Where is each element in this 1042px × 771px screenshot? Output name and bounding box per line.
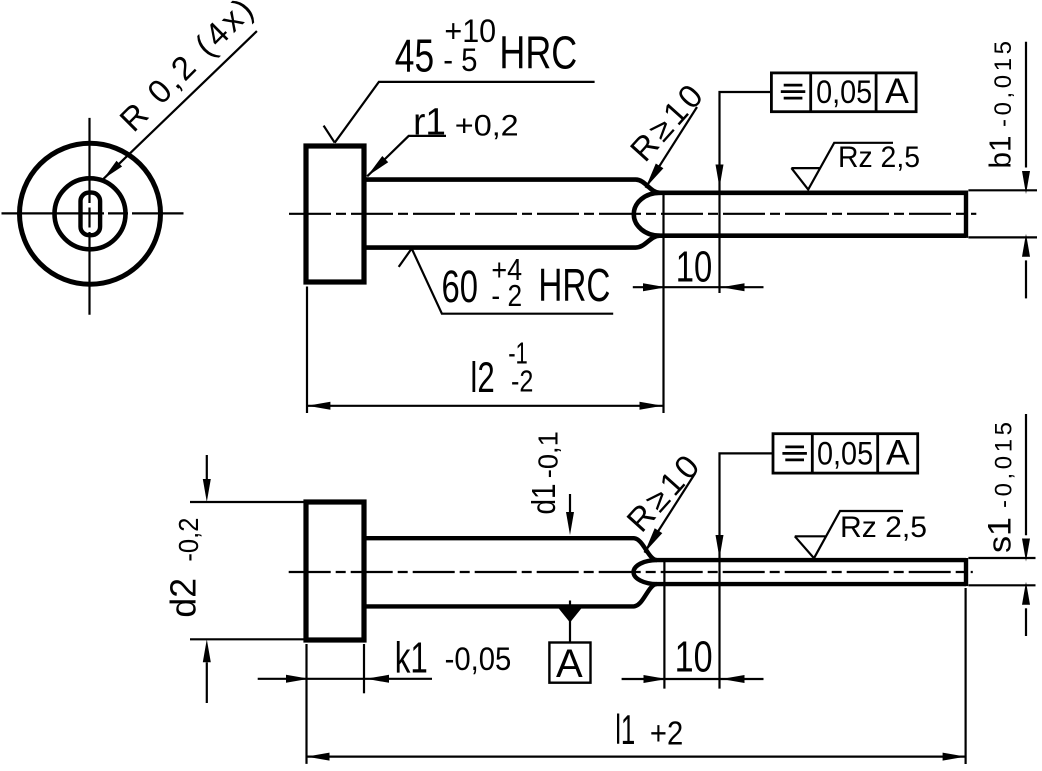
45 HRC leader xyxy=(324,82,595,143)
l2 dimension line xyxy=(307,405,662,407)
10 top extension line (blade start, shared with l2) xyxy=(662,193,664,413)
svg-text:b1: b1 xyxy=(983,136,1018,169)
top view shaft + fillet + blade top edge xyxy=(364,180,966,193)
R>=10 top leader xyxy=(646,107,697,188)
s1 dimension line + arrows xyxy=(1025,414,1027,535)
symmetry symbol top xyxy=(781,85,806,98)
60 HRC leader xyxy=(399,249,614,314)
s1 extension lines xyxy=(968,557,1035,559)
svg-text:- 2: - 2 xyxy=(491,278,522,313)
frame bottom leader xyxy=(720,453,774,688)
top view blade end cap xyxy=(964,191,968,238)
svg-text:- 5: - 5 xyxy=(443,42,477,78)
svg-text:-0,05: -0,05 xyxy=(445,641,512,677)
l1 dimension line xyxy=(307,755,966,757)
leader arrow R 0,2 xyxy=(103,161,122,179)
svg-text:r1: r1 xyxy=(413,102,446,144)
bottom view shaft + fillet + blade top edge xyxy=(364,538,966,560)
frame top leader xyxy=(720,92,772,293)
top view centerline xyxy=(289,213,976,215)
10 bottom extension line xyxy=(663,560,665,689)
svg-text:HRC: HRC xyxy=(499,26,577,78)
d2 extension lines xyxy=(190,501,306,503)
svg-text:10: 10 xyxy=(675,633,713,682)
svg-text:-0,015: -0,015 xyxy=(991,422,1018,508)
svg-text:+0,2: +0,2 xyxy=(455,109,519,142)
d1 leader + arrow xyxy=(569,494,571,513)
svg-text:k1: k1 xyxy=(395,634,428,683)
symmetry symbol bottom xyxy=(782,447,807,460)
bottom view head rectangle xyxy=(306,502,364,640)
r1 leader xyxy=(367,136,446,176)
bottom view transition bullet arc xyxy=(633,560,657,584)
svg-text:d1: d1 xyxy=(525,484,562,515)
top view shaft + fillet + blade bottom edge xyxy=(364,236,966,248)
svg-text:+2: +2 xyxy=(650,714,683,751)
svg-text:HRC: HRC xyxy=(538,259,610,311)
svg-text:s1: s1 xyxy=(982,517,1018,553)
bottom view shaft + fillet + blade bottom edge xyxy=(364,584,966,606)
tolerance frame top xyxy=(771,73,916,112)
svg-text:l1: l1 xyxy=(615,706,635,753)
svg-text:-0,2: -0,2 xyxy=(173,518,204,562)
bottom view centerline xyxy=(289,571,973,573)
svg-text:10: 10 xyxy=(676,243,713,292)
datum A box xyxy=(549,643,590,683)
end view outer circle (head diameter) xyxy=(20,143,161,284)
svg-text:-2: -2 xyxy=(511,364,533,399)
svg-text:0,05: 0,05 xyxy=(816,74,872,110)
svg-text:60: 60 xyxy=(442,261,479,312)
top view transition bullet arc xyxy=(634,193,660,236)
svg-text:l2: l2 xyxy=(470,354,494,402)
svg-text:d2: d2 xyxy=(163,578,204,618)
roughness symbol top xyxy=(791,143,893,190)
10 top dimension xyxy=(633,286,764,288)
l2 extension line left xyxy=(306,287,308,414)
b1 dimension line + arrows xyxy=(1025,42,1027,168)
leader line R 0,2 xyxy=(103,31,257,179)
bottom view blade end cap xyxy=(964,558,968,586)
roughness symbol bottom xyxy=(795,511,903,558)
end view horizontal centerline xyxy=(2,212,184,214)
R>=10 bottom leader xyxy=(645,474,696,553)
datum A triangle + stem xyxy=(558,607,583,623)
svg-text:A: A xyxy=(885,71,909,111)
l1 extension line right xyxy=(964,588,966,764)
k1 extension lines xyxy=(305,644,307,764)
k1 dimension xyxy=(258,678,432,680)
svg-text:-0,1: -0,1 xyxy=(533,431,564,478)
svg-text:-0,015: -0,015 xyxy=(990,41,1017,127)
end view inner circle (shaft diameter) xyxy=(55,178,126,249)
tolerance frame bottom xyxy=(773,434,918,473)
svg-text:Rz 2,5: Rz 2,5 xyxy=(838,141,920,174)
svg-text:45: 45 xyxy=(395,29,434,81)
svg-text:Rz 2,5: Rz 2,5 xyxy=(840,511,927,544)
d2 dimension xyxy=(206,455,208,480)
svg-text:0,05: 0,05 xyxy=(817,435,873,471)
top view head rectangle xyxy=(306,146,364,282)
b1 extension lines xyxy=(968,189,1037,191)
end view blade slot xyxy=(81,193,101,236)
svg-text:A: A xyxy=(886,432,910,472)
end view vertical centerline xyxy=(88,118,90,315)
10 bottom dimension xyxy=(622,678,764,680)
svg-text:A: A xyxy=(556,642,583,686)
